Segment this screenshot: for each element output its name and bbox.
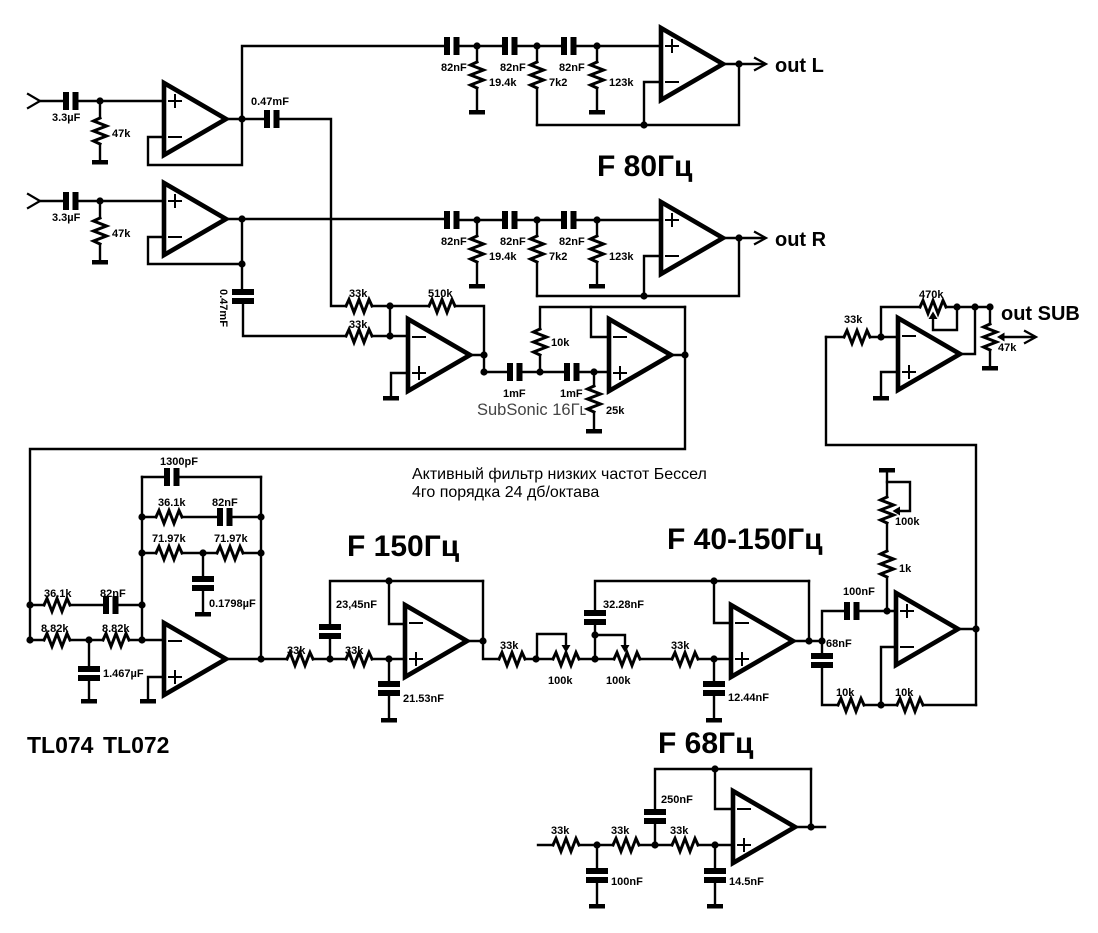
wire R22 to VR1 (525, 658, 553, 660)
resistor R8 123k (591, 236, 604, 262)
wire R16 to U7 -in (129, 639, 164, 641)
svg-text:510k: 510k (428, 288, 453, 300)
wire ch1 output up to HP filter L (242, 46, 444, 119)
wire node up to VR4 line (881, 307, 920, 337)
svg-text:33k: 33k (349, 288, 368, 300)
op-amp U7 Bessel stage 1 (164, 623, 226, 695)
wire node down to C26 (714, 845, 716, 868)
potentiometer VR4 470k body (920, 301, 946, 314)
wire R24 to R25 (864, 704, 897, 706)
op-amp U4 out R (661, 202, 723, 274)
svg-text:82nF: 82nF (559, 62, 585, 74)
wire U8 output (467, 640, 483, 642)
resistor R18 71.97k (156, 547, 182, 560)
wire R2 to ground (99, 246, 101, 260)
capacitor C3 0.47mF (264, 110, 270, 128)
node U8 output (479, 637, 486, 644)
node R20 R21 junction (326, 655, 333, 662)
node HP-L 2 (533, 42, 540, 49)
op-amp U6 subsonic 2 (609, 319, 671, 391)
node VR4 wiper junction (953, 303, 960, 310)
svg-text:10k: 10k (836, 687, 855, 699)
resistor R30 33k (672, 839, 698, 852)
wire rail to R15 (30, 639, 44, 641)
wire node link vertical (389, 306, 391, 336)
wire C18 top to fb line (330, 581, 483, 624)
resistor R28 33k (553, 839, 579, 852)
wire C8 to C9 (460, 219, 502, 221)
capacitor C17 0.1798µF (192, 576, 214, 582)
svg-text:33k: 33k (287, 645, 306, 657)
wire R6 to ground (476, 264, 478, 284)
wire U4 -in tap (644, 256, 661, 296)
op-amp U1 input buffer L (164, 83, 226, 155)
output arrow out SUB (1025, 331, 1036, 343)
ground below R5 (589, 110, 605, 115)
capacitor C12 1mF (564, 363, 570, 381)
op-amp U11 out SUB (898, 318, 960, 390)
wire R14 to C13 (70, 604, 103, 606)
svg-text:100k: 100k (895, 516, 920, 528)
node rail2 row 71.97k (138, 549, 145, 556)
ground below C21 (706, 718, 722, 723)
resistor R13 25k (588, 386, 601, 412)
svg-text:8.82k: 8.82k (41, 623, 69, 635)
wire R28 to R29 (579, 844, 613, 846)
node ch2 input junction (96, 197, 103, 204)
node between pots (591, 655, 598, 662)
svg-text:82nF: 82nF (441, 236, 467, 248)
wire VR3 wiper loop (887, 482, 910, 511)
wire node down to C19 (388, 659, 390, 681)
node ch1 input junction (96, 97, 103, 104)
svg-text:82nF: 82nF (100, 588, 126, 600)
svg-text:19.4k: 19.4k (489, 251, 517, 263)
wire VR1 wiper loop (537, 634, 566, 659)
node between R15 R16 (85, 636, 92, 643)
capacitor C16 82nF (217, 508, 223, 526)
resistor R25 10k (897, 699, 923, 712)
svg-text:47k: 47k (998, 342, 1017, 354)
wire R20 to R21 (313, 658, 346, 660)
svg-text:Активный фильтр низких частот: Активный фильтр низких частот Бессел (412, 466, 707, 483)
wire C11 to C12 (523, 371, 564, 373)
op-amp U3 out L (661, 28, 723, 100)
wire R8 to ground (596, 264, 598, 284)
wire R1 to ground (99, 146, 101, 160)
wire top fb row (142, 476, 164, 478)
capacitor C4 0.47mF (232, 289, 254, 295)
svg-text:33k: 33k (670, 825, 689, 837)
node U10 +in junction (883, 607, 890, 614)
svg-text:47k: 47k (112, 228, 131, 240)
svg-text:1300pF: 1300pF (160, 456, 198, 468)
op-amp U12 F68 (733, 791, 795, 863)
capacitor C26 14.5nF (704, 868, 726, 874)
svg-text:23,45nF: 23,45nF (336, 599, 377, 611)
input connector IN-R chevron (28, 194, 40, 208)
node between R18 R19 (199, 549, 206, 556)
svg-text:32.28nF: 32.28nF (603, 599, 644, 611)
svg-text:7k2: 7k2 (549, 77, 567, 89)
output arrow out R (755, 232, 766, 244)
svg-text:33k: 33k (500, 640, 519, 652)
potentiometer VR3 wiper arrow (893, 507, 901, 516)
svg-text:36.1k: 36.1k (44, 588, 72, 600)
wire VR2 wiper loop (595, 635, 625, 646)
wire U8 fb vertical (482, 581, 484, 641)
top bar above VR3 (879, 468, 895, 473)
wire C16 to rail3 (233, 516, 261, 518)
wire R4 down to feedback (536, 90, 538, 125)
capacitor C23 100nF (844, 602, 850, 620)
wire node to R13 (593, 372, 595, 386)
wire U3 -in tap (644, 82, 661, 125)
wire R5 to ground (596, 90, 598, 110)
resistor R12 10k (534, 329, 547, 355)
capacitor C9 82nF (502, 211, 508, 229)
svg-text:F 80Гц: F 80Гц (597, 150, 693, 183)
wire C23 to U10 +in (860, 610, 896, 612)
node U9 output (805, 637, 812, 644)
resistor R4 7k2 (531, 62, 544, 88)
wire R19 to rail3 (243, 552, 261, 554)
node subsonic sum upper (386, 302, 393, 309)
svg-text:0.1798µF: 0.1798µF (209, 598, 256, 610)
wire node3 to R5 (596, 46, 598, 62)
wire C19 to ground (388, 696, 390, 718)
wire node to R1 (99, 101, 101, 118)
node U4 output (735, 234, 742, 241)
svg-text:F 150Гц: F 150Гц (347, 530, 460, 563)
ground below U11 +in (873, 396, 889, 401)
svg-text:SubSonic 16Гʟ: SubSonic 16Гʟ (477, 401, 587, 419)
capacitor C15 1300pF (164, 468, 170, 486)
wire C7 to U3 (577, 45, 661, 47)
wire node up to R26 (886, 579, 888, 611)
wire U1 output (226, 118, 264, 120)
wire C22 down to R24 (822, 668, 838, 705)
ground below R1 (92, 160, 108, 165)
wire C13 to rail2 (119, 604, 142, 606)
wire R18 to R19 (182, 552, 217, 554)
svg-text:1mF: 1mF (503, 388, 526, 400)
wire VR4 to out rail (946, 306, 990, 308)
wire R3 to ground (476, 90, 478, 110)
node U6 output (681, 351, 688, 358)
node U10 output (972, 625, 979, 632)
node rail3 row 36.1k (257, 513, 264, 520)
ground below C17 (195, 612, 211, 617)
wire C21 to ground (713, 696, 715, 718)
ground below C19 (381, 718, 397, 723)
op-amp U10 boost (896, 593, 958, 665)
wire VR5 to ground (989, 352, 991, 366)
wire R30 to U12 +in (698, 844, 733, 846)
node rail2 row 36.1k (138, 513, 145, 520)
wire U12 output (795, 826, 825, 828)
svg-text:33k: 33k (345, 645, 364, 657)
svg-text:82nF: 82nF (441, 62, 467, 74)
wire rail to R27 (826, 336, 844, 338)
wire R9 to node (372, 305, 390, 307)
wire U12 fb vertical (810, 769, 812, 827)
svg-text:out L: out L (775, 55, 824, 77)
svg-text:out R: out R (775, 229, 827, 251)
wire R15 to R16 (70, 639, 103, 641)
wire VR2 to R23 (640, 658, 672, 660)
ground below R6 (469, 284, 485, 289)
node U12 +in junction (711, 841, 718, 848)
resistor R3 19.4k (471, 62, 484, 88)
svg-text:82nF: 82nF (500, 236, 526, 248)
wire junction up to C23 (822, 611, 844, 641)
op-amp U2 input buffer R (164, 183, 226, 255)
node U9 output RC junction (818, 637, 825, 644)
capacitor C2 3.3µF (63, 192, 69, 210)
wire F68 input (538, 844, 553, 846)
wire node up to C18 (329, 639, 331, 659)
node HP-R 1 (473, 216, 480, 223)
wire U11 output up (960, 307, 975, 354)
node VR5 top junction (986, 303, 993, 310)
node U3 fb tap (640, 121, 647, 128)
capacitor C7 82nF (561, 37, 567, 55)
svg-text:0.47mF: 0.47mF (251, 96, 289, 108)
wire node2 to R7 (536, 220, 538, 236)
svg-text:21.53nF: 21.53nF (403, 693, 444, 705)
potentiometer VR2 wiper arrow (621, 645, 630, 653)
wire C17 to ground (202, 591, 204, 612)
resistor R7 7k2 (531, 236, 544, 262)
wire input R to C2 (40, 200, 63, 202)
op-amp U5 subsonic 1 (408, 319, 470, 391)
resistor R19 71.97k (217, 547, 243, 560)
wire C2 to op-amp U2 +in (79, 200, 164, 202)
capacitor C11 1mF (507, 363, 513, 381)
node LP input rail upper (26, 601, 33, 608)
resistor R27 33k (844, 331, 870, 344)
input connector IN-L chevron (28, 94, 40, 108)
wire VR4 wiper loop (933, 307, 957, 330)
wire node to R11 (390, 305, 429, 307)
svg-text:47k: 47k (112, 128, 131, 140)
svg-text:TL074: TL074 (27, 732, 94, 758)
resistor R9 33k upper (346, 300, 372, 313)
wire U5 +in to ground (391, 373, 408, 396)
node U11 -in junction (877, 333, 884, 340)
node F40 fb tap (710, 577, 717, 584)
svg-text:F 40-150Гц: F 40-150Гц (667, 523, 823, 556)
wire node to R2 (99, 201, 101, 218)
capacitor C24 100nF (586, 868, 608, 874)
svg-text:10k: 10k (551, 337, 570, 349)
wire C3 to lowpass tap (280, 119, 346, 306)
wire U1 feedback -in to output (148, 119, 242, 165)
resistor R14 36.1k (44, 599, 70, 612)
wire C5 to C6 (460, 45, 502, 47)
wire C12 to U6 +in (580, 371, 609, 373)
wire rail2 to R18 (142, 552, 156, 554)
wire U5 output down to C11 (484, 355, 507, 372)
svg-text:F 68Гц: F 68Гц (658, 727, 754, 760)
wire U4 output to arrow (723, 237, 763, 239)
wire feedback tap to U6 -in (591, 307, 609, 337)
svg-text:3.3µF: 3.3µF (52, 212, 81, 224)
resistor R23 33k (672, 653, 698, 666)
node F68 fb tap (711, 765, 718, 772)
ground below R8 (589, 284, 605, 289)
resistor R5 123k (591, 62, 604, 88)
node rail3 row 71.97k (257, 549, 264, 556)
wire junction down to C22 (821, 641, 823, 653)
resistor R26 1k (881, 551, 894, 577)
wire C10 to U4 (577, 219, 661, 221)
wire R11 to U5 output (455, 306, 484, 355)
resistor R24 10k (838, 699, 864, 712)
wire VR5 wiper to out SUB arrow (1004, 336, 1033, 338)
ground below VR5 (982, 366, 998, 371)
svg-text:8.82k: 8.82k (102, 623, 130, 635)
svg-text:19.4k: 19.4k (489, 77, 517, 89)
wire junction down to C4 (241, 264, 243, 289)
potentiometer VR4 wiper arrow (929, 312, 938, 320)
node U3 output (735, 60, 742, 67)
resistor R6 19.4k (471, 236, 484, 262)
svg-text:1.467µF: 1.467µF (103, 668, 144, 680)
ground below C24 (589, 904, 605, 909)
resistor R21 33k (346, 653, 372, 666)
wire C26 to ground (714, 883, 716, 904)
node U4 fb tap (640, 292, 647, 299)
node R28 R29 junction (593, 841, 600, 848)
wire U6 output (671, 354, 685, 356)
wire VR1 to node (579, 658, 614, 660)
output arrow out L (755, 58, 766, 70)
wire rail down to VR5 (989, 307, 991, 324)
node ch2 fb / C4 junction (238, 260, 245, 267)
svg-text:33k: 33k (611, 825, 630, 837)
wire HP-L feedback line (537, 64, 739, 125)
wire U5 output (470, 354, 484, 356)
node subsonic sum lower (386, 332, 393, 339)
node HP-R 3 (593, 216, 600, 223)
wire fb tap down to U12 -in (715, 769, 733, 809)
svg-text:82nF: 82nF (500, 62, 526, 74)
capacitor C20 32.28nF (584, 610, 606, 616)
wire U2 feedback -in to output (148, 219, 242, 264)
wire node up to U10 -in (881, 647, 896, 705)
svg-text:36.1k: 36.1k (158, 497, 186, 509)
node R24 R25 junction (877, 701, 884, 708)
wire node down to C24 (596, 845, 598, 868)
svg-text:82nF: 82nF (212, 497, 238, 509)
svg-text:250nF: 250nF (661, 794, 693, 806)
wire R25 to output rail (923, 704, 976, 706)
wire U10 output (958, 628, 976, 630)
potentiometer VR2 100k body (614, 653, 640, 666)
node HP-R 2 (533, 216, 540, 223)
resistor R16 8.82k (103, 634, 129, 647)
wire rail3 vertical (260, 477, 262, 659)
wire U6 output net down and across to LP filter input (30, 307, 685, 640)
node R22 VR1 junction (532, 655, 539, 662)
svg-text:1k: 1k (899, 563, 912, 575)
wire U3 output to arrow (723, 63, 763, 65)
svg-text:4го порядка 24 дб/октава: 4го порядка 24 дб/октава (412, 484, 599, 501)
capacitor C1 3.3µF (63, 92, 69, 110)
wire R12 top to feedback line (540, 307, 685, 329)
wire rail2 to R17 (142, 516, 156, 518)
wire U9 fb vertical (808, 581, 810, 641)
resistor R1 47k (94, 118, 107, 144)
wire node2 to R4 (536, 46, 538, 62)
node C20 / VR2 tap (591, 631, 598, 638)
ground below C26 (707, 904, 723, 909)
svg-text:0.47mF: 0.47mF (217, 289, 229, 327)
wire R27 to U11 -in (870, 336, 898, 338)
potentiometer VR3 100k body (881, 497, 894, 523)
wire fb tap down to U9 -in (714, 581, 731, 623)
wire C24 to ground (596, 883, 598, 904)
wire U7 +in to ground (148, 677, 164, 699)
capacitor C10 82nF (561, 211, 567, 229)
wire node down to C14 (88, 640, 90, 666)
capacitor C6 82nF (502, 37, 508, 55)
node U5 output (480, 351, 487, 358)
svg-text:123k: 123k (609, 251, 634, 263)
svg-text:82nF: 82nF (559, 236, 585, 248)
wire U11 +in to ground (881, 372, 898, 396)
node F150 fb tap (385, 577, 392, 584)
svg-text:TL072: TL072 (103, 732, 169, 758)
ground below C14 (81, 699, 97, 704)
wire node up to C20 (594, 625, 596, 659)
wire U2 output to HP filter R (226, 218, 444, 220)
ground below R3 (469, 110, 485, 115)
wire R7 down to feedback (536, 264, 538, 296)
svg-text:68nF: 68nF (826, 638, 852, 650)
svg-text:10k: 10k (895, 687, 914, 699)
op-amp U9 F40-150 (731, 605, 793, 677)
ground below U7 +in (140, 699, 156, 704)
capacitor C5 82nF (444, 37, 450, 55)
wire C4 to lowpass tap (243, 304, 346, 336)
resistor R20 33k (287, 653, 313, 666)
svg-text:33k: 33k (349, 319, 368, 331)
resistor R17 36.1k (156, 511, 182, 524)
wire VR3 top stub (886, 472, 888, 497)
op-amp U8 F150 (405, 605, 467, 677)
wire node down to C21 (713, 659, 715, 681)
resistor R15 8.82k (44, 634, 70, 647)
resistor R10 33k lower (346, 330, 372, 343)
svg-text:100nF: 100nF (611, 876, 643, 888)
resistor R29 33k (613, 839, 639, 852)
wire R10 to U5 -in (372, 335, 408, 337)
potentiometer VR1 wiper arrow (562, 645, 571, 653)
svg-text:100k: 100k (606, 675, 631, 687)
capacitor C8 82nF (444, 211, 450, 229)
node U12 output (807, 823, 814, 830)
wire C25 top to fb line (655, 769, 811, 809)
wire rail2 vertical (141, 477, 143, 640)
ground below R2 (92, 260, 108, 265)
svg-text:470k: 470k (919, 289, 944, 301)
capacitor C22 68nF (811, 653, 833, 659)
wire node down to C17 (202, 553, 204, 576)
node rail2 at row B (138, 636, 145, 643)
